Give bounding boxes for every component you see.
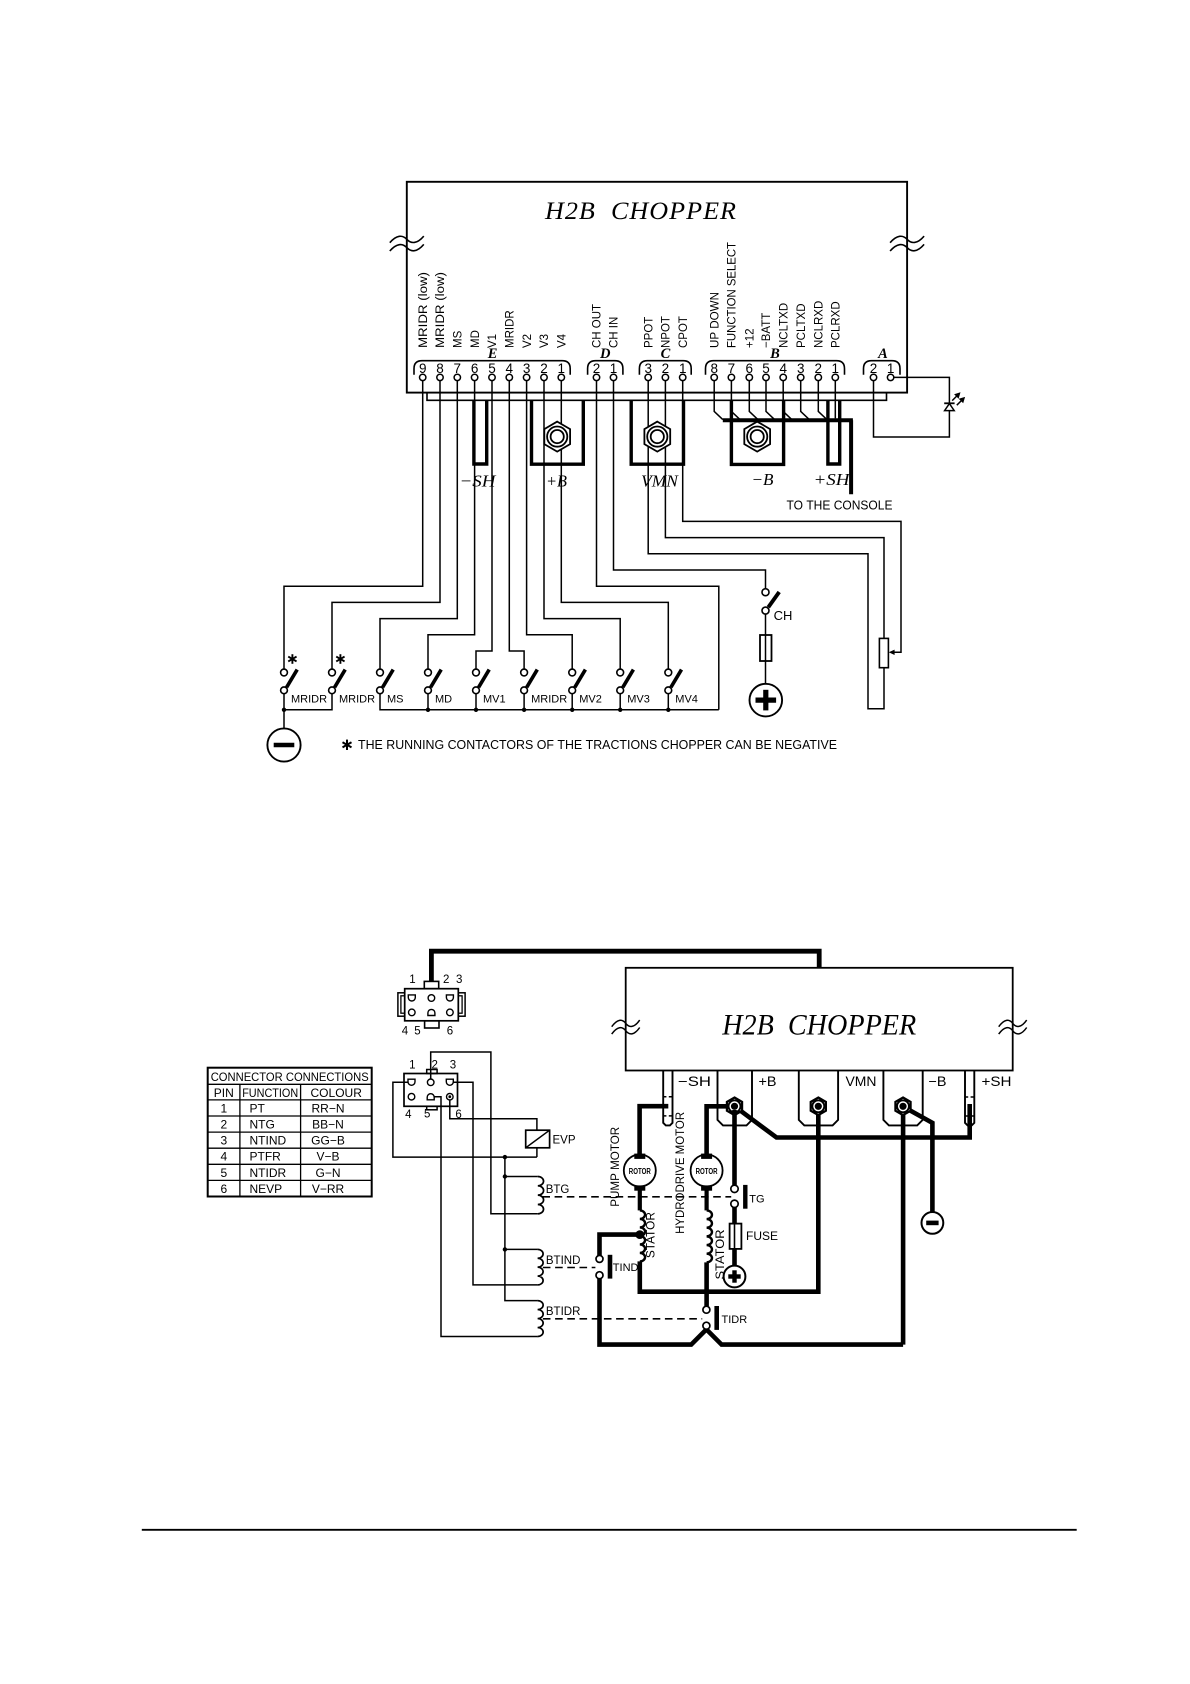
terminal strip outline below box	[427, 393, 887, 401]
potentiometer body	[879, 638, 888, 667]
svg-text:5: 5	[220, 1166, 227, 1180]
pump rotor terminals	[635, 1154, 645, 1158]
svg-text:THE RUNNING CONTACTORS OF THE: THE RUNNING CONTACTORS OF THE TRACTIONS …	[358, 738, 837, 752]
connector A pin 1	[887, 361, 895, 381]
H2B CHOPPER unit box (lower diagram)	[626, 968, 1013, 1071]
wire E7 to switch 3	[380, 381, 457, 669]
svg-text:NTIND: NTIND	[250, 1134, 287, 1148]
connector D pin 1	[610, 361, 618, 381]
connector B pin 6	[746, 361, 754, 381]
bolt of -B terminal	[744, 422, 770, 452]
svg-text:+SH: +SH	[814, 470, 852, 489]
svg-text:1: 1	[409, 1059, 415, 1071]
connector E pin 9	[419, 361, 427, 381]
svg-text:CH OUT: CH OUT	[592, 304, 604, 348]
connector connections table	[208, 1068, 372, 1197]
wire switch1 to negative terminal	[283, 694, 285, 729]
connector B pin 4	[779, 361, 787, 381]
svg-text:MRIDR: MRIDR	[505, 310, 517, 348]
svg-text:MV3: MV3	[627, 694, 650, 706]
mechanical link BTIDR (dashed)	[543, 1318, 702, 1320]
thick wire fuse to plus terminal	[732, 1249, 737, 1266]
wire E9 to switch 1	[284, 381, 423, 669]
wire C3 (PPOT) to potentiometer bottom	[648, 381, 884, 709]
svg-text:BTG: BTG	[546, 1184, 570, 1196]
contactor switch MRIDR	[521, 669, 568, 705]
svg-text:6: 6	[447, 1025, 453, 1037]
terminal -B (top)	[731, 400, 783, 464]
svg-text:V−RR: V−RR	[312, 1182, 345, 1196]
break symbol left edge (top box)	[390, 236, 424, 243]
EVP electrovalve	[526, 1130, 550, 1148]
bottom bus of contactors	[380, 694, 719, 710]
wire switch at x=572.2 to bus	[571, 694, 573, 710]
break symbol right edge (lower box)	[999, 1020, 1027, 1027]
thick wire hydro rotor top to +B	[707, 1106, 728, 1155]
connector C pin 2	[662, 361, 670, 381]
thick wire VMN / pump stator bus	[640, 1110, 819, 1292]
console cable drop	[849, 420, 853, 494]
svg-text:NCLRXD: NCLRXD	[814, 301, 826, 348]
svg-text:3: 3	[220, 1134, 227, 1148]
junction dot pump stator tap	[635, 1230, 644, 1239]
thick wire hydro stator to TIDR top	[704, 1262, 709, 1306]
fuse (lower diagram)	[730, 1224, 742, 1249]
hydro stator coil	[707, 1210, 712, 1262]
svg-text:MS: MS	[387, 694, 404, 706]
pump rotor to stator wire	[638, 1190, 642, 1210]
svg-text:NEVP: NEVP	[250, 1182, 283, 1196]
connector E pin 8	[436, 361, 444, 381]
wire E2 to switch 8	[544, 381, 620, 669]
6-pin connector (lower, wired)	[404, 1059, 462, 1121]
svg-text:PTFR: PTFR	[250, 1150, 282, 1164]
connector E pin 1	[558, 361, 566, 381]
bolt of VMN terminal (lower)	[811, 1098, 826, 1116]
wire A1 to LED	[894, 377, 950, 403]
connector C pin 3	[644, 361, 652, 381]
svg-text:NCLTXD: NCLTXD	[778, 303, 790, 348]
connector E bracket	[414, 361, 570, 375]
wire pin1 (PT) to EVP bottom	[393, 1082, 537, 1157]
wire switch2 bottom	[284, 694, 332, 710]
wire B2 to console bus	[818, 381, 827, 420]
6-pin connector (upper, unwired)	[398, 974, 465, 1038]
wire pin6 (NEVP) to EVP top	[450, 1100, 537, 1130]
contact TIND	[596, 1255, 603, 1262]
svg-text:STATOR: STATOR	[646, 1212, 658, 1258]
pump motor rotor	[624, 1155, 656, 1187]
thick branch pump stator tap to TIND	[600, 1235, 640, 1256]
note asterisk	[346, 740, 348, 750]
svg-text:CPOT: CPOT	[678, 316, 690, 348]
svg-text:MRIDR: MRIDR	[531, 694, 567, 706]
break symbol left edge (lower box)	[612, 1020, 640, 1027]
connector B pin 5	[762, 361, 770, 381]
contact TIDR	[703, 1306, 710, 1313]
hydro rotor to stator wire	[704, 1190, 708, 1210]
svg-text:FUNCTION SELECT: FUNCTION SELECT	[727, 242, 739, 348]
svg-text:PCLTXD: PCLTXD	[796, 303, 808, 348]
wire E6 to switch 4	[428, 381, 475, 669]
coil BTIDR	[538, 1301, 544, 1337]
svg-text:MRIDR (low): MRIDR (low)	[418, 272, 430, 348]
connector B pin 2	[815, 361, 823, 381]
svg-text:CONNECTOR CONNECTIONS: CONNECTOR CONNECTIONS	[211, 1070, 369, 1084]
wire B8 to console bus	[714, 381, 723, 420]
svg-text:NTG: NTG	[250, 1118, 275, 1132]
svg-text:V4: V4	[557, 333, 569, 348]
bolt of VMN terminal	[644, 422, 670, 452]
wire E3 to switch 7	[527, 381, 573, 669]
contactor switch MV2	[569, 669, 602, 705]
connector C pin 1	[679, 361, 687, 381]
connector E pin 4	[506, 361, 514, 381]
svg-text:−BATT: −BATT	[761, 313, 773, 348]
thick wire TG to fuse	[732, 1207, 737, 1223]
svg-text:CH IN: CH IN	[609, 317, 621, 348]
console bus bar	[723, 418, 853, 422]
svg-text:RR−N: RR−N	[311, 1101, 344, 1115]
svg-text:ROTOR: ROTOR	[696, 1167, 718, 1176]
bolt of +B terminal (lower)	[727, 1098, 742, 1116]
svg-text:4: 4	[220, 1150, 227, 1164]
wire E8 to switch 2	[332, 381, 440, 669]
svg-text:GG−B: GG−B	[311, 1134, 345, 1148]
thick wire -B to negative terminal	[904, 1107, 932, 1212]
svg-text:ROTOR: ROTOR	[629, 1167, 651, 1176]
wire switch at x=428.0 to bus	[427, 694, 429, 710]
svg-text:PPOT: PPOT	[643, 317, 655, 348]
svg-text:VMN: VMN	[846, 1074, 877, 1089]
terminal +B (top)	[532, 400, 584, 464]
H2B CHOPPER unit box (top diagram)	[407, 182, 907, 393]
bolt of +B terminal	[544, 422, 570, 452]
svg-text:2: 2	[220, 1118, 227, 1132]
wire B6 to console bus	[749, 381, 758, 420]
svg-text:TIDR: TIDR	[722, 1314, 748, 1326]
svg-text:UP DOWN: UP DOWN	[709, 292, 721, 348]
svg-text:MD: MD	[435, 694, 452, 706]
contact TG	[731, 1185, 738, 1192]
terminal slot +SH (lower)	[965, 1071, 974, 1126]
terminal +SH (top)	[828, 400, 840, 464]
negative battery terminal (lower)	[922, 1212, 944, 1234]
svg-text:+SH: +SH	[982, 1074, 1012, 1089]
wire pin2 (NTG) to BTG coil bottom	[431, 1052, 538, 1214]
hydro rotor terminals	[702, 1154, 712, 1158]
mechanical link BTIND (dashed)	[543, 1267, 596, 1269]
connector E pin 7	[454, 361, 462, 381]
svg-text:MV4: MV4	[675, 694, 698, 706]
svg-text:MV1: MV1	[483, 694, 506, 706]
svg-text:PT: PT	[250, 1101, 266, 1115]
svg-text:NTIDR: NTIDR	[250, 1166, 287, 1180]
positive battery terminal circle	[750, 684, 783, 717]
terminal slot +B (lower)	[718, 1071, 753, 1126]
svg-text:COLOUR: COLOUR	[311, 1086, 363, 1100]
wire LED to A2	[874, 381, 950, 437]
connector C bracket	[639, 361, 691, 375]
contactor switch MS	[377, 669, 404, 705]
connector E pin 5	[488, 361, 496, 381]
connector A bracket	[864, 361, 901, 375]
svg-text:TG: TG	[749, 1194, 764, 1206]
junction switch1/switch2	[282, 708, 286, 712]
svg-text:MS: MS	[453, 330, 465, 348]
svg-text:V2: V2	[522, 334, 534, 348]
svg-text:BTIDR: BTIDR	[546, 1306, 581, 1318]
hydrodrive motor rotor	[691, 1155, 723, 1187]
EVP bottom lead	[536, 1148, 538, 1157]
svg-text:TIND: TIND	[613, 1262, 639, 1274]
wire E5 to switch 5	[476, 381, 492, 669]
contactor switch MV1	[473, 669, 506, 705]
wire C2 (NPOT) to potentiometer top	[665, 381, 884, 639]
svg-text:HYDRODRIVE MOTOR: HYDRODRIVE MOTOR	[675, 1112, 687, 1234]
svg-text:V3: V3	[539, 334, 551, 348]
connector A pin 2	[870, 361, 878, 381]
wire D2 (CH OUT) to bottom bus	[597, 381, 719, 710]
LED diode symbol	[944, 402, 954, 404]
svg-text:TO THE CONSOLE: TO THE CONSOLE	[787, 499, 893, 513]
connector B pin 8	[710, 361, 718, 381]
svg-text:PIN: PIN	[214, 1086, 234, 1100]
switch CH	[762, 589, 769, 596]
contactor switch MV4	[665, 669, 698, 705]
wire D1 (CH IN) to CH switch	[614, 381, 766, 589]
negative battery terminal circle	[267, 728, 300, 761]
svg-text:NPOT: NPOT	[661, 316, 673, 348]
connector B bracket	[706, 361, 845, 375]
wire E4 to switch 6	[509, 381, 524, 669]
wire switch at x=476.0 to bus	[475, 694, 477, 710]
svg-text:BB−N: BB−N	[312, 1118, 344, 1132]
wire B7 to console bus	[731, 381, 740, 420]
wire B1 to console bus	[834, 381, 836, 419]
svg-text:EVP: EVP	[553, 1134, 576, 1146]
svg-text:5: 5	[414, 1025, 420, 1037]
svg-text:FUNCTION: FUNCTION	[242, 1086, 298, 1100]
svg-text:3: 3	[450, 1059, 456, 1071]
svg-text:2: 2	[443, 974, 449, 986]
thick cable from upper connector pin2 into chopper box	[431, 951, 819, 981]
svg-text:3: 3	[456, 974, 462, 986]
svg-text:5: 5	[424, 1108, 430, 1120]
wire switch at x=620.2 to bus	[619, 694, 621, 710]
terminal slot VMN (lower)	[799, 1071, 838, 1126]
svg-text:−SH: −SH	[678, 1074, 711, 1089]
fuse (top diagram)	[760, 635, 772, 661]
svg-text:+12: +12	[745, 328, 757, 348]
wire pin3 (NTIND) to BTIND coil bottom	[453, 1082, 537, 1285]
LED arrows	[952, 395, 958, 401]
branch to BTG top	[505, 1176, 538, 1178]
wire E1 to switch 9	[561, 381, 668, 669]
svg-text:4: 4	[402, 1025, 409, 1037]
wire B5 to console bus	[766, 381, 775, 420]
terminal slot -B (lower)	[883, 1071, 922, 1126]
svg-text:MRIDR: MRIDR	[291, 694, 327, 706]
coil BTIND	[538, 1249, 544, 1285]
branch to BTIND top	[505, 1248, 538, 1250]
svg-text:2: 2	[431, 1059, 437, 1071]
thick wire TIND bottom to -B with tent over TIDR	[600, 1278, 904, 1344]
svg-text:6: 6	[220, 1182, 227, 1196]
svg-text:+B: +B	[759, 1074, 777, 1089]
svg-text:+B: +B	[546, 472, 568, 491]
junction dots on common wire	[503, 1155, 507, 1159]
positive battery terminal (lower)	[724, 1266, 746, 1288]
coil BTG	[538, 1177, 544, 1214]
svg-text:−SH: −SH	[460, 472, 498, 491]
svg-text:V−B: V−B	[316, 1150, 339, 1164]
wire CH to plus terminal	[765, 614, 767, 684]
thick wire pump rotor top to -SH	[640, 1106, 669, 1155]
svg-text:−B: −B	[752, 470, 775, 489]
wire C1 (CPOT) to potentiometer wiper	[683, 381, 901, 653]
connector E pin 6	[471, 361, 479, 381]
svg-text:PUMP MOTOR: PUMP MOTOR	[610, 1127, 622, 1207]
connector E pin 3	[523, 361, 531, 381]
svg-text:G−N: G−N	[315, 1166, 340, 1180]
thick wire +B to +SH bus	[736, 1104, 970, 1138]
svg-text:V1: V1	[487, 334, 499, 348]
svg-text:CH: CH	[774, 608, 793, 623]
connector D bracket	[588, 361, 623, 375]
svg-text:MV2: MV2	[579, 694, 602, 706]
svg-text:MRIDR: MRIDR	[339, 694, 375, 706]
thick wire +B to TG	[732, 1110, 737, 1185]
svg-text:BTIND: BTIND	[546, 1255, 581, 1267]
contactor switch MD	[425, 669, 453, 705]
svg-text:PCLRXD: PCLRXD	[831, 301, 843, 348]
wire switch at x=668.3 to bus	[667, 694, 669, 710]
terminal -SH (top)	[474, 400, 487, 464]
contactor switch MV3	[617, 669, 650, 705]
footer rule	[142, 1529, 1077, 1531]
terminal slot -SH (lower)	[663, 1071, 672, 1126]
svg-text:1: 1	[220, 1101, 227, 1115]
svg-text:MRIDR (low): MRIDR (low)	[435, 272, 447, 348]
terminal VMN (top)	[631, 400, 683, 464]
connector B pin 7	[728, 361, 736, 381]
connector B pin 3	[797, 361, 805, 381]
connector B pin 1	[832, 361, 840, 381]
contactor switch MRIDR	[281, 654, 328, 705]
break symbol right edge (top box)	[890, 236, 924, 243]
svg-text:VMN: VMN	[641, 472, 680, 491]
svg-text:H2B CHOPPER: H2B CHOPPER	[721, 1008, 916, 1041]
wire B3 to console bus	[801, 381, 810, 420]
svg-text:H2B CHOPPER: H2B CHOPPER	[544, 196, 737, 225]
pump stator coil	[640, 1210, 645, 1261]
svg-text:MD: MD	[470, 330, 482, 348]
svg-text:−B: −B	[929, 1074, 947, 1089]
connector D pin 2	[593, 361, 601, 381]
wire pin5 (NTIDR) to BTIDR coil bottom	[434, 1097, 537, 1337]
wire B4 to console bus	[783, 381, 792, 420]
bolt of -B terminal (lower)	[895, 1098, 910, 1116]
svg-text:FUSE: FUSE	[746, 1229, 778, 1243]
wire switch at x=524.1 to bus	[523, 694, 525, 710]
contactor switch MRIDR	[329, 654, 376, 705]
thick wire -B down to TIDR bus	[901, 1110, 906, 1345]
potentiometer wiper arrowhead	[889, 650, 895, 655]
svg-text:A: A	[877, 346, 888, 362]
mechanical link BTG (dashed)	[542, 1196, 731, 1198]
connector E pin 2	[540, 361, 548, 381]
svg-text:1: 1	[409, 974, 415, 986]
common wire to coil tops	[505, 1157, 538, 1301]
svg-text:4: 4	[405, 1109, 412, 1121]
